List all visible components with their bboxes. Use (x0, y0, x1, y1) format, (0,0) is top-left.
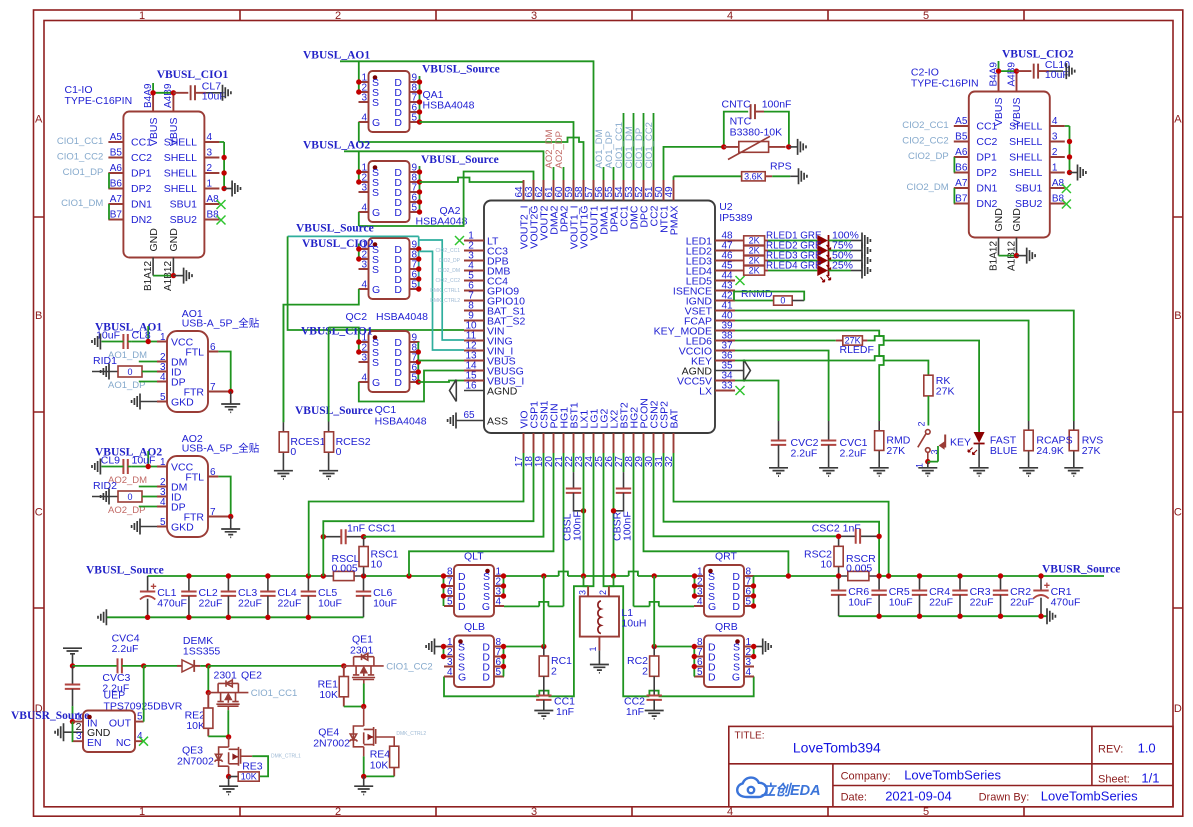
svg-text:DN1: DN1 (976, 183, 997, 195)
title block (729, 726, 1173, 806)
svg-text:4: 4 (1052, 116, 1058, 127)
U2 pin 38 LED6 (715, 340, 735, 342)
U2 pin 62 VOUT2 (543, 180, 545, 201)
svg-text:5: 5 (412, 113, 418, 124)
svg-text:RLEDF: RLEDF (840, 344, 874, 356)
svg-text:A8: A8 (207, 194, 220, 205)
U2 pin 48 LED1 (715, 240, 735, 242)
svg-text:4: 4 (727, 806, 733, 818)
resistor RSCR 0.005 (848, 571, 869, 580)
svg-text:7: 7 (210, 507, 216, 518)
wire QA2 drain join (419, 166, 421, 212)
svg-text:3: 3 (577, 590, 587, 595)
svg-text:A: A (1174, 114, 1182, 126)
pin B4A9 (998, 71, 1000, 91)
svg-text:5: 5 (923, 806, 929, 818)
wire VBUSL_Source teal (288, 235, 419, 237)
svg-text:VBUSL_Source: VBUSL_Source (86, 565, 164, 577)
U2 pin 7 GPIO10 (464, 300, 484, 302)
ground (1027, 248, 1035, 264)
svg-text:1nF: 1nF (556, 706, 574, 718)
svg-text:100nF: 100nF (762, 99, 792, 111)
svg-text:0: 0 (127, 492, 132, 502)
svg-text:VBUSL_Source: VBUSL_Source (296, 223, 374, 235)
svg-text:VBUSL_CIO1: VBUSL_CIO1 (157, 69, 229, 81)
svg-text:DP2: DP2 (131, 183, 152, 195)
left pins (954, 126, 969, 204)
U2 pin 22 BST1 (573, 433, 575, 453)
wire to QE1 (208, 665, 343, 667)
svg-text:4: 4 (160, 497, 166, 508)
wire RNMD bypass loop (734, 292, 804, 301)
svg-text:5: 5 (923, 10, 929, 22)
resistor RSCL 0.005 (333, 571, 354, 580)
svg-text:A7: A7 (110, 194, 123, 205)
svg-text:1: 1 (207, 179, 213, 190)
svg-text:VBUSL_Source: VBUSL_Source (421, 154, 499, 166)
capacitor CL2 22uF (188, 576, 190, 592)
U2 pin 27 BST2 (623, 433, 625, 453)
svg-text:D: D (394, 117, 402, 129)
wire stub pin61 + net AO2_DM (553, 167, 555, 180)
wire QC1 drain join (417, 342, 419, 382)
capacitor CR1 470uF (1040, 576, 1042, 591)
resistor RLED3 2K (735, 260, 744, 262)
svg-text:2K: 2K (749, 256, 760, 266)
LED GREEN 100% (817, 235, 828, 246)
wire QC1 gate to U2 pin14 VBUSG (359, 371, 464, 402)
wire QLB drain join (504, 647, 544, 677)
svg-text:A6: A6 (110, 163, 123, 174)
svg-text:22uF: 22uF (929, 596, 953, 608)
svg-text:CIO1_CC1: CIO1_CC1 (57, 136, 103, 147)
ground (CC1) (534, 711, 553, 719)
svg-text:SBU1: SBU1 (170, 199, 198, 211)
svg-text:3: 3 (207, 148, 213, 159)
capacitor CR4 22uF (919, 576, 921, 591)
svg-text:4: 4 (496, 597, 502, 608)
right pins SHELL/SBU (204, 142, 219, 220)
svg-text:DP1: DP1 (131, 168, 152, 180)
svg-text:Drawn By:: Drawn By: (979, 792, 1030, 804)
svg-text:CIO2_CC2: CIO2_CC2 (436, 278, 461, 284)
U2 pin 6 GPIO9 (464, 290, 484, 292)
svg-text:B7: B7 (110, 210, 123, 221)
capacitor CR5 10uF (878, 576, 880, 591)
no-connect pin33 (736, 386, 745, 395)
resistor RCES1 0 (282, 305, 284, 423)
svg-text:5: 5 (746, 597, 752, 608)
svg-text:2: 2 (207, 163, 213, 174)
svg-text:4: 4 (746, 667, 752, 678)
svg-text:QRB: QRB (715, 621, 738, 633)
ground (QRB pin1) (754, 646, 763, 648)
wire (829, 240, 852, 242)
svg-text:G: G (482, 601, 490, 613)
svg-text:10K: 10K (370, 760, 389, 772)
wire KEY_MODE pin39 to RMD (735, 331, 884, 422)
U2 pin 50 NTC1 (663, 180, 665, 201)
svg-text:B1A12: B1A12 (143, 261, 154, 291)
U2 pin 45 LED4 (715, 270, 735, 272)
U2 pin 21 HG1 (563, 433, 565, 453)
connector C1-IO TYPE-C16PIN (57, 69, 241, 291)
svg-text:5: 5 (160, 517, 166, 528)
svg-text:LoveTomb394: LoveTomb394 (793, 740, 881, 756)
svg-text:USB-A_5P_全贴: USB-A_5P_全贴 (182, 317, 260, 330)
svg-text:1SS355: 1SS355 (183, 646, 221, 658)
U2 pin 8 BAT_S1 (464, 310, 484, 312)
ground (1019, 468, 1038, 476)
no-connect SBU2 (1062, 200, 1071, 209)
wire BST2 pin27 + capacitor CBSR 100nF (623, 453, 625, 472)
wire VBUSL_CIO1 (153, 83, 173, 93)
U2 pin 51 CC2 (653, 180, 655, 201)
svg-text:CIO2_CC2: CIO2_CC2 (902, 136, 948, 147)
svg-text:CSC2 1nF: CSC2 1nF (812, 523, 861, 535)
GND pins bottom (999, 238, 1017, 256)
svg-text:D: D (458, 601, 466, 613)
wire VCC (132, 451, 157, 467)
svg-text:3: 3 (361, 93, 367, 104)
svg-text:S: S (372, 264, 379, 276)
svg-text:GND: GND (993, 208, 1005, 232)
capacitor CL10 10uF (1017, 64, 1050, 79)
ground (101, 489, 109, 505)
resistor RPS 3.6K (674, 176, 742, 180)
wire gnd rail right (839, 615, 1047, 617)
U2 pin 61 DMA2 (553, 180, 555, 201)
ground (862, 253, 870, 269)
svg-text:CIO1_CC1: CIO1_CC1 (251, 688, 297, 699)
wire teal to U2 pin12 VIN_I (419, 251, 464, 350)
U2 pin 16 AGND (464, 390, 484, 392)
svg-text:USB-A_5P_全贴: USB-A_5P_全贴 (182, 442, 260, 455)
wire LG2 pin25 to QRB gate (604, 453, 754, 696)
wire QC2 gate to RCES1 (283, 289, 358, 422)
U2 pin 26 LX2 (613, 433, 615, 453)
wire DM (139, 361, 157, 363)
ground (92, 459, 100, 475)
U2 pin 46 LED3 (715, 260, 735, 262)
wire RE1 to QE4 drain (344, 706, 364, 708)
U2 pin 33 LX (715, 390, 735, 392)
svg-text:1: 1 (139, 10, 145, 22)
U2 pin 32 BAT (673, 433, 675, 453)
U2 pin 47 LED2 (715, 250, 735, 252)
svg-text:CIO2_CC1: CIO2_CC1 (436, 248, 461, 254)
wire QA2 gate to U2 pin63 (359, 172, 534, 227)
capacitor CL5 10uF (307, 576, 309, 592)
svg-text:10K: 10K (319, 689, 338, 701)
wire VIO pin17 (309, 453, 524, 576)
svg-text:16: 16 (465, 381, 477, 392)
svg-text:Date:: Date: (841, 792, 867, 804)
svg-text:CNTC: CNTC (722, 99, 752, 111)
wire RC1 top (543, 576, 545, 647)
svg-text:ASS: ASS (487, 416, 508, 428)
svg-text:S: S (372, 357, 379, 369)
wire DN1-DN2 bracket (953, 188, 955, 204)
svg-text:FTL: FTL (185, 472, 204, 484)
svg-text:OUT: OUT (109, 718, 132, 730)
svg-text:4: 4 (207, 132, 213, 143)
svg-text:10uF: 10uF (889, 596, 913, 608)
ground (799, 168, 807, 184)
svg-text:HSBA4048: HSBA4048 (375, 416, 427, 428)
svg-text:6: 6 (210, 342, 216, 353)
ground (918, 468, 937, 476)
svg-text:CIO2_DP: CIO2_DP (908, 151, 949, 162)
capacitor CR2 22uF (1000, 576, 1002, 591)
svg-text:6: 6 (210, 467, 216, 478)
pin A4B9 (172, 93, 174, 112)
capacitor CL6 10uF (363, 576, 365, 592)
svg-text:10K: 10K (186, 720, 205, 732)
wire FTL-FTR (218, 352, 230, 392)
U2 pin 19 CSN1 (543, 433, 545, 453)
right pins (1050, 126, 1065, 204)
svg-text:CL8: CL8 (132, 330, 151, 342)
resistor RC1 2 (543, 647, 545, 657)
U2 pin 30 CSN2 (653, 433, 655, 453)
svg-text:QRT: QRT (715, 551, 738, 563)
svg-text:65: 65 (463, 410, 475, 421)
capacitor CL3 22uF (227, 576, 229, 592)
svg-text:CC1: CC1 (976, 121, 997, 133)
wire QRB source join (753, 647, 755, 657)
ground (left rail) (98, 609, 106, 625)
svg-text:D: D (708, 672, 716, 684)
U2 pin 24 LG1 (593, 433, 595, 453)
U2 pin 41 VSET (715, 310, 735, 312)
wire (768, 260, 817, 262)
svg-text:1: 1 (588, 646, 598, 651)
capacitor CL4 22uF (267, 576, 269, 592)
left pins CC1..DN2 (108, 142, 123, 220)
wire CSP2 pin31 (664, 453, 880, 576)
no-connect pin1 (455, 236, 464, 245)
svg-text:SHELL: SHELL (164, 137, 197, 149)
svg-text:VBUSL_Source: VBUSL_Source (422, 64, 500, 76)
svg-text:1nF CSC1: 1nF CSC1 (347, 523, 396, 535)
svg-text:10uF: 10uF (318, 597, 342, 609)
svg-text:HSBA4048: HSBA4048 (376, 311, 428, 323)
svg-text:KEY: KEY (950, 437, 971, 449)
svg-text:2.2uF: 2.2uF (112, 643, 139, 655)
U2 pin 14 VBUSG (464, 370, 484, 372)
svg-text:5: 5 (160, 392, 166, 403)
capacitor CVC2 2.2uF (778, 421, 780, 441)
U2 pin 58 VOUT1G (583, 180, 585, 201)
wire stub pin53 + net CIO1_DM (633, 113, 635, 180)
U2 pin 63 VOUT2G (533, 180, 535, 201)
svg-text:B5: B5 (955, 132, 968, 143)
pin B4A9 (152, 93, 154, 112)
svg-text:CC2: CC2 (976, 136, 997, 148)
svg-text:10uF: 10uF (132, 455, 156, 467)
ground (224, 188, 232, 190)
U2 pin 60 DPA2 (563, 180, 565, 201)
wire QC1 pin5 to U2 pin15 VBUS_I (418, 381, 464, 383)
svg-text:10uF: 10uF (848, 596, 872, 608)
svg-text:BAT: BAT (669, 408, 681, 428)
svg-text:3: 3 (76, 731, 82, 742)
transistor QA1 HSBA4048 (359, 71, 475, 132)
svg-text:10uH: 10uH (621, 618, 646, 630)
svg-text:CIO2_DM: CIO2_DM (438, 268, 460, 274)
svg-text:1nF: 1nF (626, 706, 644, 718)
ground (GKD) (140, 401, 157, 403)
svg-text:2: 2 (598, 590, 608, 595)
svg-text:A5: A5 (110, 132, 123, 143)
U2 pin 9 BAT_S2 (464, 320, 484, 322)
U2 pin 2 CC3 (464, 250, 484, 252)
svg-text:CC2: CC2 (131, 152, 152, 164)
wire (829, 250, 852, 252)
wire stub pin54 + net CIO1_CC1 (623, 113, 625, 180)
svg-text:2K: 2K (749, 246, 760, 256)
U2 pin 53 DMC (633, 180, 635, 201)
svg-text:G: G (372, 207, 380, 219)
svg-text:D: D (482, 672, 490, 684)
U2 pin 10 VIN (464, 330, 484, 332)
svg-text:RE3: RE3 (242, 761, 263, 773)
ground (UEP GND) (55, 723, 63, 741)
svg-text:5: 5 (697, 667, 703, 678)
svg-text:CIO1_DP: CIO1_DP (63, 167, 104, 178)
svg-text:3: 3 (531, 806, 537, 818)
svg-text:5: 5 (447, 597, 453, 608)
capacitor CL1 470uF (147, 576, 149, 592)
U2 pin 25 LG2 (603, 433, 605, 453)
wire VBUSR rail (754, 575, 1105, 577)
svg-text:DN2: DN2 (131, 214, 152, 226)
U2 pin 31 CSP2 (663, 433, 665, 453)
svg-text:RID1: RID1 (93, 355, 117, 367)
svg-text:SHELL: SHELL (164, 183, 197, 195)
svg-text:0: 0 (336, 446, 342, 458)
svg-text:AO2_DP: AO2_DP (554, 131, 565, 169)
svg-text:VBUSL_Source: VBUSL_Source (295, 405, 373, 417)
ground (862, 263, 870, 279)
U2 pin 35 AGND (715, 370, 735, 372)
svg-text:CIO1_CC2: CIO1_CC2 (57, 152, 103, 163)
svg-text:10uF: 10uF (1045, 69, 1069, 81)
wire down to QE2 (207, 666, 209, 693)
ground (223, 85, 231, 101)
wire gnd join (999, 255, 1017, 257)
svg-text:DMK_CTRL2: DMK_CTRL2 (396, 731, 426, 737)
U2 pin 3 DPB (464, 260, 484, 262)
svg-text:B3380-10K: B3380-10K (730, 127, 783, 139)
wire OUT up to rail (143, 666, 145, 722)
svg-text:2: 2 (335, 806, 341, 818)
svg-text:QLB: QLB (464, 621, 485, 633)
svg-text:1/1: 1/1 (1141, 771, 1159, 786)
wire (768, 250, 817, 252)
svg-text:GND: GND (1011, 208, 1023, 232)
wire BAT pin32 (674, 453, 889, 576)
svg-text:0.005: 0.005 (846, 563, 872, 575)
svg-text:CC1: CC1 (131, 137, 152, 149)
wire VBUSL rail (148, 575, 444, 577)
svg-text:GND: GND (148, 228, 160, 252)
ground (862, 243, 870, 259)
wire RE4 bottom to QE4 source (364, 756, 395, 776)
svg-text:4: 4 (361, 203, 367, 214)
wire SHELL join (219, 142, 224, 189)
U2 pin 11 VING (464, 340, 484, 342)
svg-text:CIO2_CC1: CIO2_CC1 (902, 120, 948, 131)
LED GREEN 25% (817, 265, 828, 276)
svg-text:TYPE-C16PIN: TYPE-C16PIN (65, 95, 133, 107)
U2 pin 34 VCC5V (715, 380, 735, 382)
no-connect pin44 (736, 276, 745, 285)
svg-text:2K: 2K (749, 266, 760, 276)
wire QC2 drain join teal (418, 236, 420, 289)
U2 pin 1 LT (464, 240, 484, 242)
wire QLB source join (443, 647, 445, 657)
ground (274, 471, 293, 479)
svg-text:B1A12: B1A12 (988, 241, 999, 271)
svg-text:Company:: Company: (841, 771, 891, 783)
svg-text:A6: A6 (955, 147, 968, 158)
svg-text:立创EDA: 立创EDA (761, 782, 821, 799)
wire DN1-DN2 bracket (108, 204, 110, 220)
capacitor CC2 1nF (647, 696, 662, 700)
ground (right rail) (1047, 608, 1055, 624)
svg-text:D: D (732, 601, 740, 613)
svg-text:D: D (394, 207, 402, 219)
svg-text:LX: LX (699, 386, 712, 398)
U2 pin 65 ASS (456, 420, 484, 422)
svg-text:2021-09-04: 2021-09-04 (885, 789, 952, 804)
svg-text:G: G (708, 601, 716, 613)
svg-text:CIO1_DM: CIO1_DM (61, 198, 103, 209)
svg-text:CIO1_CC2: CIO1_CC2 (386, 662, 432, 673)
resistor RLED2 2K (735, 250, 744, 252)
transistor QLT (454, 565, 494, 617)
wire CSP1 pin18 (323, 453, 533, 576)
svg-text:2.2uF: 2.2uF (840, 448, 867, 460)
svg-text:D: D (394, 377, 402, 389)
svg-text:D: D (1174, 703, 1182, 715)
svg-text:QC1: QC1 (375, 404, 397, 416)
wire QLT drain join (443, 576, 445, 606)
svg-text:SHELL: SHELL (1009, 121, 1042, 133)
pin A4B9 (1016, 71, 1018, 91)
wire QRT drain join (753, 576, 755, 606)
wire PCON pin29 (644, 453, 789, 576)
svg-text:SBU2: SBU2 (170, 214, 198, 226)
capacitor CL8 10uF (123, 334, 127, 349)
wire QRT source join (694, 576, 696, 596)
svg-text:S: S (372, 187, 379, 199)
netport KEY (928, 446, 938, 462)
ground (1064, 468, 1083, 476)
wire VBUSL_CIO2 (999, 61, 1017, 71)
GND pins bottom (153, 258, 173, 276)
wire QA1 gate to U2 pin58 (hop over 573.5) (359, 122, 584, 201)
svg-text:470uF: 470uF (1051, 596, 1081, 608)
svg-text:Sheet:: Sheet: (1098, 774, 1130, 786)
svg-text:S: S (372, 97, 379, 109)
svg-text:2: 2 (1052, 147, 1058, 158)
wire QA1 pin5 to U2 pin59 (420, 122, 574, 201)
svg-text:LoveTombSeries: LoveTombSeries (1041, 789, 1138, 804)
svg-text:2N7002: 2N7002 (313, 738, 350, 750)
